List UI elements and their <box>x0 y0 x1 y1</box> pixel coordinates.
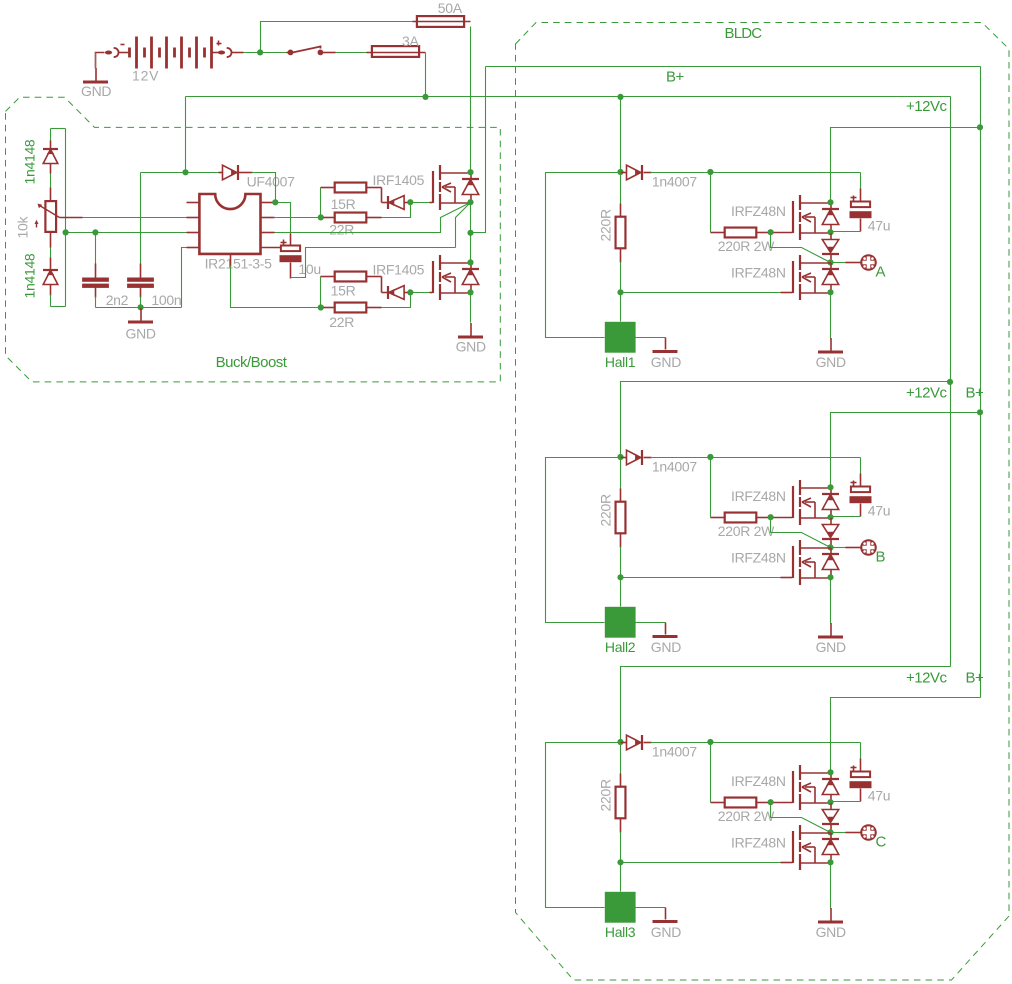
wire feedback row to IC pin3 <box>66 232 187 234</box>
junction B+ rail phase 2 <box>977 409 983 415</box>
svg-text:220R: 220R <box>598 779 614 811</box>
freewheel diode phase 1 <box>822 233 839 263</box>
svg-text:15R: 15R <box>331 196 356 212</box>
label plus sign <box>217 43 222 45</box>
svg-text:UF4007: UF4007 <box>247 174 296 190</box>
capacitor 47u plus mark phase 2 <box>851 482 857 484</box>
potentiometer R1 10k body <box>45 201 56 232</box>
svg-text:15R: 15R <box>331 282 356 298</box>
potentiometer adjust arrow <box>35 220 39 228</box>
svg-text:22R: 22R <box>329 222 354 238</box>
svg-text:GND: GND <box>816 639 846 655</box>
wire diode node down to gate resistor phase 3 <box>710 743 712 803</box>
wire diode row to Hall phase 1 <box>546 173 621 338</box>
resistor R5 22R lower <box>324 307 335 309</box>
transistor IRFZ48N low phase 3 <box>793 825 831 870</box>
svg-text:BLDC: BLDC <box>725 25 763 42</box>
junction ground row at C2 <box>138 304 144 310</box>
capacitor 47u phase 1 <box>850 202 872 219</box>
wire diode cathode row phase 2 <box>651 457 861 459</box>
ground symbol GND (buck small-signal) <box>128 308 153 322</box>
wire gate node to phase node phase 3 <box>771 803 831 833</box>
wire D3 to loop bottom <box>50 285 52 296</box>
wire Vcc row to UF4007 <box>186 172 220 174</box>
wire B+ riser from buck output <box>471 67 486 233</box>
wire wiper to IC pin2 <box>60 217 83 219</box>
wire phase node to pad phase 1 <box>831 262 847 264</box>
wire to cap 47u phase 2 <box>860 458 862 475</box>
svg-text:Hall2: Hall2 <box>605 639 636 655</box>
capacitor 47u phase 3 <box>850 772 872 789</box>
svg-text:B+: B+ <box>966 669 985 686</box>
junction B+ rail phase 1 <box>977 124 983 130</box>
wire gate node to Q1 gate <box>411 202 431 204</box>
transistor IRFZ48N low phase 1 <box>793 255 831 300</box>
wire node to switch <box>261 52 287 54</box>
wire R5 up to lower gate node <box>382 293 411 308</box>
switch S1 <box>288 46 323 55</box>
svg-text:C: C <box>876 833 887 850</box>
svg-text:47u: 47u <box>868 218 890 234</box>
wire B+ row <box>486 66 981 68</box>
transistor IRFZ48N high phase 3 <box>793 765 831 810</box>
diode D6 gate lower <box>388 286 404 300</box>
svg-text:10u: 10u <box>298 261 320 277</box>
wire top to diode D2 anode <box>50 129 52 142</box>
wire R3 up to gate node <box>382 203 411 218</box>
svg-text:IRFZ48N: IRFZ48N <box>731 773 786 789</box>
wire diode row to Hall phase 3 <box>546 743 621 908</box>
wire D2 to potentiometer <box>50 164 52 174</box>
hall sensor Hall2 <box>605 607 636 638</box>
wire IC com pin down to lower gate row <box>230 254 232 267</box>
wire hall node down phase 2 <box>620 578 622 607</box>
svg-text:47u: 47u <box>868 788 890 804</box>
wire hall to ground phase 1 <box>636 337 666 339</box>
capacitor C3 10u <box>280 246 302 263</box>
wire battery plus to node <box>232 52 244 54</box>
wire cap negative to phase node phase 3 <box>860 789 862 802</box>
wire bottom ground row <box>96 307 182 309</box>
wire IC pin1 right stub <box>261 202 275 204</box>
svg-text:220R 2W: 220R 2W <box>718 238 775 254</box>
svg-text:22R: 22R <box>329 314 354 330</box>
wire Q1 source to VS pin <box>274 203 471 233</box>
junction high drain phase 3 <box>827 769 833 775</box>
wire gate resistor to high gate phase 3 <box>771 802 793 804</box>
junction high source phase 1 <box>827 229 833 235</box>
svg-text:IRFZ48N: IRFZ48N <box>731 203 786 219</box>
wire diode node down to gate resistor phase 2 <box>710 458 712 518</box>
wire Q2 source to ground <box>470 293 472 323</box>
svg-text:220R 2W: 220R 2W <box>718 808 775 824</box>
svg-text:+12Vc: +12Vc <box>906 384 947 401</box>
svg-text:10k: 10k <box>15 216 31 239</box>
label minus sign <box>121 44 125 46</box>
svg-text:220R: 220R <box>598 209 614 241</box>
wire diode cathode row phase 1 <box>651 172 861 174</box>
diode 1n4007 phase 3 <box>621 742 627 744</box>
capacitor 47u phase 2 <box>850 487 872 504</box>
junction hall node phase 2 <box>617 574 623 580</box>
svg-text:3A: 3A <box>402 33 419 49</box>
resistor 220R phase 1 <box>620 173 622 205</box>
ground symbol GND (Hall2) <box>653 635 678 638</box>
transistor IRFZ48N low phase 2 <box>793 540 831 585</box>
svg-text:Buck/Boost: Buck/Boost <box>216 354 288 371</box>
wire low source to ground phase 2 <box>830 578 832 624</box>
junction Q1 drain <box>467 169 473 175</box>
svg-text:B+: B+ <box>966 384 985 401</box>
wire right rail +12Vc vertical <box>950 97 952 667</box>
junction upper gate divider <box>318 214 324 220</box>
diode D5 gate upper <box>388 196 404 210</box>
junction diode cathode phase 1 <box>707 169 713 175</box>
diode D2 1n4148 upper <box>43 149 58 164</box>
junction phase node phase 2 <box>827 544 833 550</box>
junction battery plus node <box>257 49 263 55</box>
wire gate node to phase node phase 2 <box>771 518 831 548</box>
junction diode row phase 3 <box>617 739 623 745</box>
svg-text:IRF1405: IRF1405 <box>373 172 425 188</box>
svg-text:1n4148: 1n4148 <box>22 253 38 298</box>
junction low source phase 3 <box>827 859 833 865</box>
wire B+ branch row phase 1 <box>831 128 981 203</box>
wire low gate row phase 3 <box>621 862 782 864</box>
wire to cap 47u phase 3 <box>860 743 862 760</box>
fuse F1 50A <box>413 21 471 23</box>
resistor 220R 2W phase 2 <box>711 517 725 519</box>
wire low gate row phase 2 <box>621 577 782 579</box>
wire low source to ground phase 1 <box>830 293 832 339</box>
svg-text:+12Vc: +12Vc <box>906 669 947 686</box>
ground symbol GND (Hall3) <box>653 920 678 923</box>
wire gate resistor to high gate phase 2 <box>771 517 793 519</box>
dashed region frame Buck/Boost <box>6 97 501 382</box>
junction high source phase 2 <box>827 514 833 520</box>
wire pot bottom to diode D3 <box>50 232 52 248</box>
wire Vcc row to C2 <box>141 172 186 174</box>
diode D3 1n4148 lower <box>43 270 58 285</box>
wire IC pin2 right to gate row <box>261 217 275 219</box>
junction diode cathode phase 3 <box>707 739 713 745</box>
resistor R4 15R lower <box>321 276 335 278</box>
svg-text:IRFZ48N: IRFZ48N <box>731 488 786 504</box>
body diode Q2 <box>462 263 479 293</box>
battery clip plus <box>218 48 232 57</box>
wire lower gate node to Q2 gate <box>411 292 431 294</box>
wire UF4007 cathode to VB node <box>239 172 253 174</box>
svg-text:IRFZ48N: IRFZ48N <box>731 265 786 281</box>
svg-text:GND: GND <box>816 354 846 370</box>
wire +12Vc row <box>186 96 951 98</box>
capacitor 47u plus mark phase 3 <box>851 767 857 769</box>
svg-text:1n4007: 1n4007 <box>652 173 697 189</box>
wire low gate row phase 1 <box>621 292 782 294</box>
wire 3A fuse down to +12Vc row <box>425 53 427 97</box>
wire hall to ground phase 2 <box>636 622 666 624</box>
junction diode row phase 2 <box>617 454 623 460</box>
svg-text:IR2151-3-5: IR2151-3-5 <box>205 256 273 272</box>
wire D5 to gate node <box>405 202 411 204</box>
svg-text:A: A <box>876 263 886 280</box>
junction +12Vc tap phase 1 <box>617 94 623 100</box>
wire C2 top lead <box>140 173 142 265</box>
junction upper gate node <box>407 199 413 205</box>
wire R2 to gate diode D5 <box>381 188 383 203</box>
svg-text:GND: GND <box>456 338 486 354</box>
wire battery minus to ground <box>96 53 105 69</box>
junction phase node phase 3 <box>827 829 833 835</box>
capacitor 47u plus mark phase 1 <box>851 197 857 199</box>
wire pot network loop top <box>51 128 66 130</box>
transistor IRFZ48N high phase 2 <box>793 480 831 525</box>
wire right rail B+ vertical <box>980 67 982 698</box>
wire node up to 50A fuse <box>261 22 413 53</box>
junction feedback row at C1 <box>92 229 98 235</box>
wire phase node to pad phase 2 <box>831 547 847 549</box>
junction high gate node phase 1 <box>768 229 774 235</box>
svg-text:12V: 12V <box>132 67 159 83</box>
resistor R3 22R upper <box>324 217 335 219</box>
wire gate node to phase node phase 1 <box>771 233 831 263</box>
wire B+ branch row phase 3 <box>831 698 981 773</box>
wire phase node to pad phase 3 <box>831 832 847 834</box>
wire C3 negative to VS row <box>290 263 292 279</box>
IC U1 IR2151-3-5 body <box>199 194 260 254</box>
junction high drain phase 2 <box>827 484 833 490</box>
resistor R2 15R upper <box>321 187 335 189</box>
body diode high phase 2 <box>822 488 839 518</box>
junction hall node phase 1 <box>617 289 623 295</box>
junction Q1 source <box>467 199 473 205</box>
hall sensor Hall3 <box>605 892 636 923</box>
wire ground row up to IC pin4 <box>182 248 187 308</box>
pad A phase 1 <box>860 254 877 271</box>
wire C2 bottom lead <box>140 288 142 298</box>
freewheel diode phase 2 <box>822 518 839 548</box>
capacitor C3 10u plus mark <box>281 242 287 244</box>
junction high gate node phase 2 <box>768 514 774 520</box>
svg-text:50A: 50A <box>438 0 463 16</box>
wire gate resistor to high gate phase 1 <box>771 232 793 234</box>
svg-text:IRF1405: IRF1405 <box>373 262 425 278</box>
battery clip minus <box>105 48 119 57</box>
wire D6 to lower gate node <box>405 292 411 294</box>
junction lower gate node <box>407 289 413 295</box>
diode D4 UF4007 <box>223 165 239 180</box>
wire lower gate divider up to R4 <box>320 277 322 308</box>
svg-text:GND: GND <box>816 924 846 940</box>
svg-text:GND: GND <box>81 83 111 99</box>
wire hall to ground phase 3 <box>636 907 666 909</box>
resistor 220R 2W phase 1 <box>711 232 725 234</box>
junction low source phase 1 <box>827 289 833 295</box>
ground symbol GND (buck power) <box>458 323 483 337</box>
wire to cap 47u phase 1 <box>860 173 862 190</box>
svg-text:GND: GND <box>651 354 681 370</box>
wire cap negative to phase node phase 1 <box>860 219 862 232</box>
junction 3A fuse on +12Vc row <box>422 94 428 100</box>
junction high gate node phase 3 <box>768 799 774 805</box>
wire up to R2 <box>320 188 322 218</box>
svg-text:B+: B+ <box>666 69 685 86</box>
wire C1 top lead <box>95 233 97 265</box>
transistor Q1 IRF1405 upper <box>433 165 471 210</box>
wire B+ branch row phase 2 <box>831 413 981 488</box>
capacitor C1 2n2 <box>82 278 109 288</box>
wire pot network parallel branch <box>65 129 67 307</box>
wire pot network loop bottom <box>51 306 66 308</box>
junction VB node <box>272 199 278 205</box>
svg-text:GND: GND <box>651 639 681 655</box>
junction lower gate divider <box>318 304 324 310</box>
wire Q1 source to VS row <box>456 203 471 248</box>
capacitor C2 100n <box>127 278 154 288</box>
wire diode row to Hall phase 2 <box>546 458 621 623</box>
junction +12Vc rail phase 2 <box>947 379 953 385</box>
diode 1n4007 phase 1 <box>621 172 627 174</box>
body diode Q1 <box>462 173 479 203</box>
body diode high phase 3 <box>822 773 839 803</box>
wire +12Vc tap down phase 1 <box>620 97 622 173</box>
pad B phase 2 <box>860 539 877 556</box>
svg-text:GND: GND <box>651 924 681 940</box>
resistor 220R phase 3 <box>620 743 622 775</box>
svg-text:GND: GND <box>126 325 156 341</box>
hall sensor Hall1 <box>605 322 636 353</box>
svg-text:Hall3: Hall3 <box>605 924 636 940</box>
wire VB node to C3 positive <box>276 203 291 235</box>
resistor 220R phase 2 <box>620 458 622 490</box>
wire buck half-bridge column <box>470 203 472 263</box>
IC U1 pin1 left stub <box>187 202 200 204</box>
svg-text:220R 2W: 220R 2W <box>718 523 775 539</box>
junction high drain phase 1 <box>827 199 833 205</box>
body diode low phase 3 <box>822 833 839 863</box>
wire cap negative to phase node phase 2 <box>860 504 862 517</box>
transistor Q2 IRF1405 lower <box>433 255 471 300</box>
junction Q2 drain <box>467 259 473 265</box>
body diode low phase 2 <box>822 548 839 578</box>
wire hall node down phase 1 <box>620 293 622 322</box>
wire +12Vc feed row phase 2 <box>621 382 951 458</box>
junction feedback row at pot branch <box>63 229 69 235</box>
svg-text:2n2: 2n2 <box>106 292 129 308</box>
junction buck output node <box>467 230 473 236</box>
svg-text:B: B <box>876 548 886 565</box>
resistor 220R 2W phase 3 <box>711 802 725 804</box>
junction low source phase 2 <box>827 574 833 580</box>
pad C phase 3 <box>860 824 877 841</box>
ground symbol GND (half-bridge phase 2) <box>818 623 843 637</box>
wire hall node down phase 3 <box>620 863 622 892</box>
ground symbol GND (battery) <box>83 68 108 82</box>
ground symbol GND (half-bridge phase 3) <box>818 908 843 922</box>
wire low source to ground phase 3 <box>830 863 832 909</box>
svg-text:IRFZ48N: IRFZ48N <box>731 835 786 851</box>
wire clip to battery <box>119 52 130 54</box>
junction diode cathode phase 2 <box>707 454 713 460</box>
junction high source phase 3 <box>827 799 833 805</box>
svg-text:1n4007: 1n4007 <box>652 743 697 759</box>
wire C1 bottom lead <box>95 288 97 298</box>
ground symbol GND (Hall1) <box>653 350 678 353</box>
body diode high phase 1 <box>822 203 839 233</box>
ground symbol GND (half-bridge phase 1) <box>818 338 843 352</box>
svg-text:1n4148: 1n4148 <box>22 139 38 184</box>
wire diode cathode row phase 3 <box>651 742 861 744</box>
junction hall node phase 3 <box>617 859 623 865</box>
wire +12Vc row down to Vcc row <box>185 97 187 173</box>
body diode low phase 1 <box>822 263 839 293</box>
junction Q2 source <box>467 289 473 295</box>
junction Vcc row <box>182 169 188 175</box>
svg-text:220R: 220R <box>598 494 614 526</box>
wire R4 to gate diode D6 <box>381 277 383 293</box>
wire IC pin4 right to C3 <box>261 247 281 249</box>
wire 50A fuse down to buck drain <box>470 27 472 173</box>
fuse F2 3A <box>367 52 426 54</box>
svg-text:47u: 47u <box>868 503 890 519</box>
potentiometer wiper arrow <box>38 204 60 218</box>
wire +12Vc feed row phase 3 <box>621 667 951 743</box>
battery B1 12V plates <box>130 37 212 69</box>
svg-text:IRFZ48N: IRFZ48N <box>731 550 786 566</box>
transistor IRFZ48N high phase 1 <box>793 195 831 240</box>
svg-text:1n4007: 1n4007 <box>652 458 697 474</box>
svg-text:100n: 100n <box>151 292 181 308</box>
junction diode row phase 1 <box>617 169 623 175</box>
svg-text:Hall1: Hall1 <box>605 354 636 370</box>
wire diode node down to gate resistor phase 1 <box>710 173 712 233</box>
wire battery plus to clip <box>212 52 219 54</box>
freewheel diode phase 3 <box>822 803 839 833</box>
svg-text:+12Vc: +12Vc <box>906 98 947 115</box>
dashed region frame BLDC <box>516 23 1010 981</box>
diode 1n4007 phase 2 <box>621 457 627 459</box>
wire switch to 3A fuse <box>323 52 336 54</box>
junction phase node phase 1 <box>827 259 833 265</box>
